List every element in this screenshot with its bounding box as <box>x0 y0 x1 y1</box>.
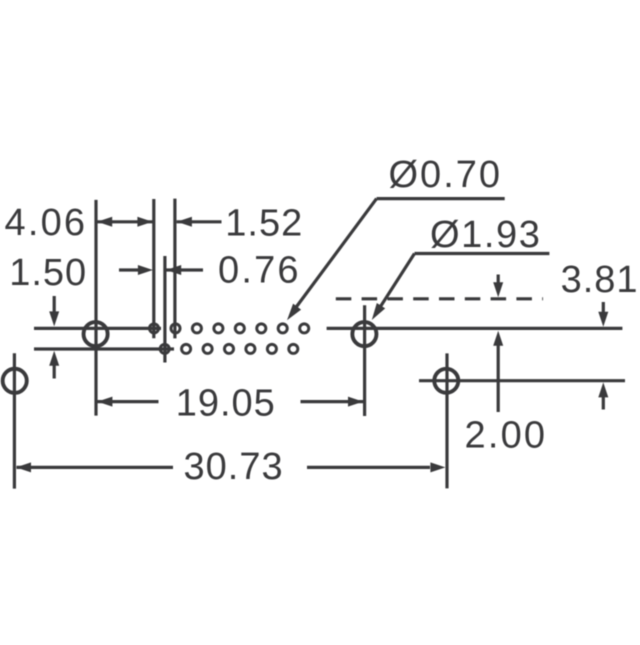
arrowhead 30.73 left <box>16 462 31 472</box>
wire dim 1.52 shaft <box>177 220 222 223</box>
wire underline of 0.70 label <box>377 197 505 200</box>
pin hole 9 <box>160 344 169 353</box>
wire dim 19.05 right shaft <box>301 400 364 403</box>
wire dim 3.81 up shaft <box>602 396 605 410</box>
pin hole 5 <box>235 324 244 333</box>
arrowhead leader 1.93 <box>372 303 385 320</box>
pin holes top row <box>149 324 308 333</box>
wire dim 19.05 left shaft <box>97 400 159 403</box>
wire extension line x=15 <box>13 353 16 488</box>
pin hole 4 <box>214 324 223 333</box>
svg-text:30.73: 30.73 <box>184 446 284 488</box>
pin holes bottom row <box>160 344 298 353</box>
arrowhead 4.06 left <box>97 217 112 227</box>
arrowhead 19.05 left <box>97 397 112 407</box>
arrowhead 3.81 up <box>598 382 608 397</box>
arrowhead 2.00 down to dashed <box>493 282 503 297</box>
pin hole 12 <box>224 344 233 353</box>
wire dim 1.50 up shaft <box>53 365 56 379</box>
wire leader line to small hole <box>296 199 377 308</box>
pin hole 11 <box>203 344 212 353</box>
wire bottom row centerline <box>34 347 174 350</box>
wire extension line x=447 <box>445 353 448 488</box>
wire dim 0.76 right shaft <box>166 268 203 271</box>
wire dim 30.73 left shaft <box>17 466 174 469</box>
wire dim 4.06 shaft <box>97 220 153 223</box>
wire dashed reference line <box>336 297 543 300</box>
arrowhead leader 0.70 <box>287 304 301 321</box>
arrowhead 0.76 right <box>166 265 181 275</box>
pin hole 1 <box>149 324 158 333</box>
pin hole 7 <box>278 324 287 333</box>
svg-text:0.76: 0.76 <box>218 249 301 291</box>
arrowhead 1.50 up <box>49 351 59 366</box>
hole big left D1 <box>84 322 108 346</box>
wire extension line x=365 <box>363 305 366 416</box>
svg-text:1.50: 1.50 <box>9 252 87 294</box>
hole far-left mounting <box>3 369 27 393</box>
arrowhead 3.81 down <box>598 312 608 327</box>
pin hole 15 <box>289 344 298 353</box>
wire extension line x=96 <box>94 200 97 416</box>
arrowhead 0.76 left <box>138 265 153 275</box>
arrowhead 30.73 right <box>430 462 445 472</box>
arrowhead 4.06 right <box>137 217 152 227</box>
wire extension line x=165 <box>163 256 166 363</box>
svg-text:3.81: 3.81 <box>561 259 639 301</box>
svg-text:2.00: 2.00 <box>465 414 548 456</box>
wire dim 3.81 down shaft <box>602 302 605 313</box>
svg-text:Ø0.70: Ø0.70 <box>389 154 503 196</box>
wire extension line x=175 <box>173 199 176 339</box>
wire dim 2.00 up shaft <box>497 346 500 413</box>
wire dim 30.73 right shaft <box>307 466 430 469</box>
svg-text:1.52: 1.52 <box>225 202 303 244</box>
pin hole 10 <box>182 344 191 353</box>
wire dim 2.00 down shaft <box>497 275 500 287</box>
wire lower right centerline <box>419 379 625 382</box>
pin hole 3 <box>192 324 201 333</box>
pin hole 8 <box>300 324 309 333</box>
svg-text:19.05: 19.05 <box>176 382 276 424</box>
pin hole 2 <box>171 324 180 333</box>
hole big mid D2 <box>352 322 376 346</box>
wire top row centerline left segment <box>34 327 161 330</box>
wire leader line to big hole <box>380 254 415 308</box>
pin hole 14 <box>267 344 276 353</box>
wire extension line x=154 <box>152 199 155 338</box>
wire underline of 1.93 label <box>415 252 550 255</box>
arrowhead 1.50 down <box>49 311 59 326</box>
pin hole 6 <box>257 324 266 333</box>
svg-text:4.06: 4.06 <box>5 202 88 244</box>
svg-text:Ø1.93: Ø1.93 <box>430 214 542 256</box>
pin hole 13 <box>246 344 255 353</box>
wire dim 1.50 down shaft <box>53 296 56 313</box>
wire top row centerline right segment <box>327 327 623 330</box>
arrowhead 2.00 up <box>493 331 503 346</box>
arrowhead 19.05 right <box>348 397 363 407</box>
arrowhead 1.52 <box>177 217 192 227</box>
wire dim 0.76 left shaft <box>119 268 141 271</box>
hole lower-right mounting <box>434 369 458 393</box>
